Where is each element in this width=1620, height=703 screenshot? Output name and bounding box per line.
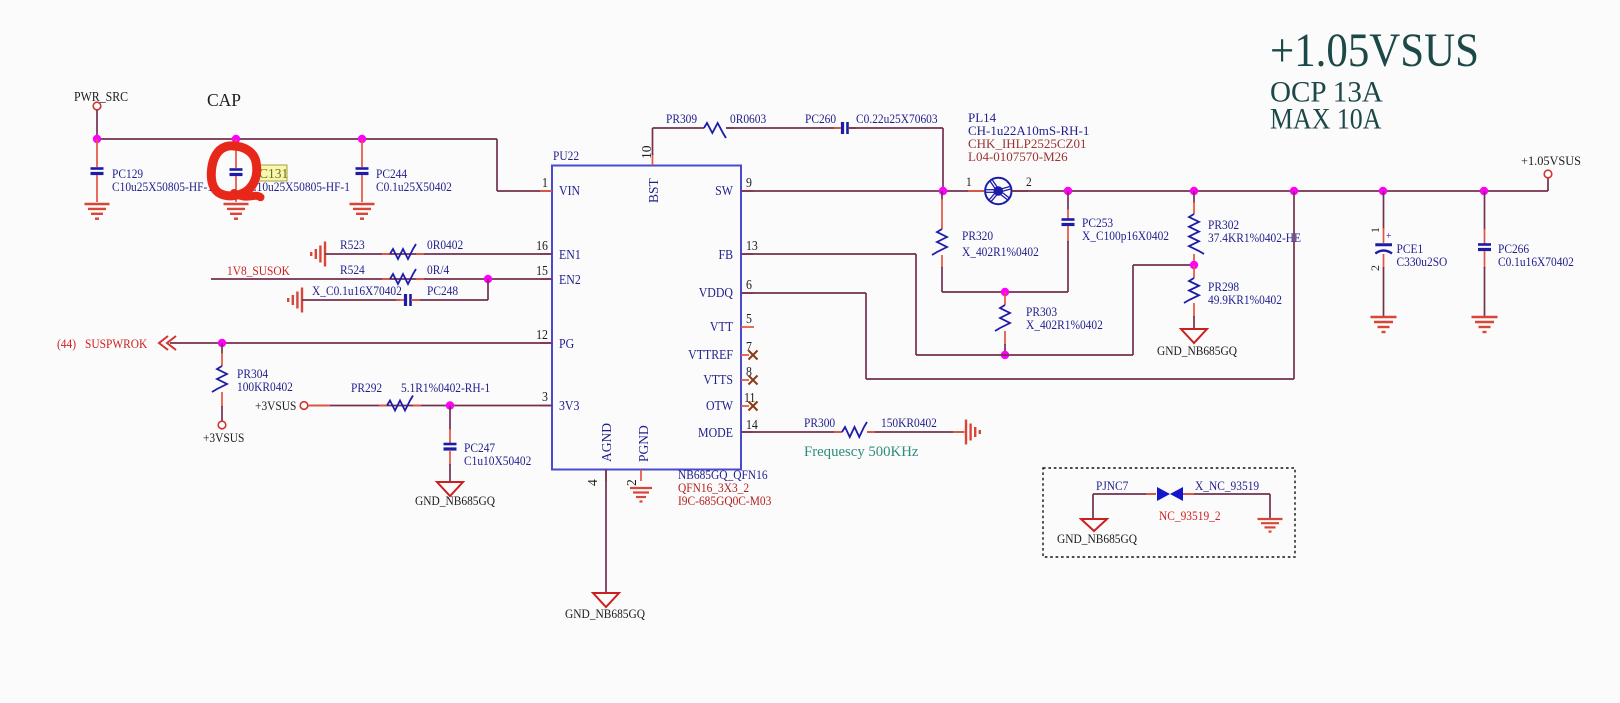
svg-text:2: 2: [1368, 265, 1382, 271]
ground: [85, 204, 110, 219]
wire 3V3: [308, 405, 552, 407]
svg-text:5: 5: [746, 311, 752, 326]
node junction: [1190, 261, 1198, 269]
svg-text:R523: R523: [340, 237, 365, 252]
svg-text:CAP: CAP: [207, 90, 241, 110]
svg-text:+3VSUS: +3VSUS: [255, 398, 297, 413]
svg-text:C330u2SO: C330u2SO: [1396, 254, 1447, 269]
node junction: [939, 187, 947, 195]
svg-text:GND_NB685GQ: GND_NB685GQ: [415, 493, 495, 508]
svg-text:GND_NB685GQ: GND_NB685GQ: [1157, 343, 1237, 358]
svg-text:PC248: PC248: [427, 283, 458, 298]
svg-text:0R0402: 0R0402: [427, 237, 463, 252]
svg-text:EN1: EN1: [559, 247, 581, 262]
wire EN1: [325, 253, 552, 255]
svg-text:C0.1u25X50402: C0.1u25X50402: [376, 179, 452, 194]
svg-text:3V3: 3V3: [559, 398, 579, 413]
node junction: [1379, 187, 1387, 195]
svg-text:PR292: PR292: [351, 380, 382, 395]
inductor PL14 labels: [968, 110, 1089, 164]
node junction: [1480, 187, 1488, 195]
node junction: [1001, 288, 1009, 296]
svg-text:GND_NB685GQ: GND_NB685GQ: [1057, 531, 1137, 546]
wire: [302, 279, 488, 300]
no-connect VTTREF: [741, 351, 758, 360]
wire BST: [653, 128, 705, 155]
ground: [1371, 317, 1397, 332]
svg-text:R524: R524: [340, 262, 365, 277]
svg-text:X_402R1%0402: X_402R1%0402: [962, 244, 1039, 259]
capacitor PC131: [230, 139, 350, 202]
pin names bottom and top: [599, 177, 661, 462]
ground GND_NB685GQ: [1057, 519, 1137, 546]
capacitor PC247: [444, 406, 532, 482]
wire: [1092, 494, 1094, 518]
no-connect VTTS: [741, 376, 758, 385]
svg-text:GND_NB685GQ: GND_NB685GQ: [565, 606, 645, 621]
svg-text:37.4KR1%0402-HE: 37.4KR1%0402-HE: [1208, 230, 1301, 245]
ground GND_NB685GQ: [415, 482, 495, 508]
pin numbers: [536, 145, 758, 486]
svg-text:MAX 10A: MAX 10A: [1270, 103, 1382, 136]
svg-text:1: 1: [1368, 227, 1382, 233]
note OCP 13A: [1270, 76, 1384, 108]
svg-text:Frequescy 500KHz: Frequescy 500KHz: [804, 444, 919, 460]
wire input bus: [96, 139, 552, 191]
net title +1.05VSUS: [1270, 23, 1479, 77]
terminal PWR_SRC: [74, 89, 128, 109]
svg-text:+1.05VSUS: +1.05VSUS: [1521, 154, 1581, 168]
svg-text:SW: SW: [715, 183, 733, 198]
ground GND_NB685GQ: [565, 593, 645, 621]
pin names left: [559, 183, 581, 413]
node junction: [1001, 351, 1009, 359]
wire output: [1012, 190, 1548, 192]
diode NC bowtie X_NC_93519: [1157, 478, 1259, 501]
svg-text:5.1R1%0402-RH-1: 5.1R1%0402-RH-1: [401, 380, 490, 395]
resistor PR292: [351, 380, 490, 410]
svg-text:X_C0.1u16X70402: X_C0.1u16X70402: [312, 283, 402, 298]
svg-text:PU22: PU22: [553, 148, 579, 163]
svg-text:C1u10X50402: C1u10X50402: [464, 453, 531, 468]
node junction: [232, 135, 240, 143]
label CAP: [207, 90, 241, 110]
power ground symbol right: [966, 420, 980, 445]
svg-text:2: 2: [624, 479, 639, 486]
note MAX 10A: [1270, 103, 1382, 136]
wire: [726, 127, 840, 129]
capacitor PCE1 polarized: [1368, 191, 1447, 317]
ground: [1472, 317, 1498, 332]
wire: [848, 128, 943, 191]
terminal +3VSUS input: [255, 398, 308, 413]
label NC_93519_2: [1159, 508, 1221, 523]
svg-text:X_NC_93519: X_NC_93519: [1195, 478, 1259, 493]
svg-text:OTW: OTW: [706, 398, 733, 413]
svg-text:0R/4: 0R/4: [427, 262, 449, 277]
svg-text:PR320: PR320: [962, 228, 993, 243]
resistor R524: [340, 262, 449, 284]
svg-text:13: 13: [746, 238, 758, 253]
no-connect OTW: [741, 402, 758, 411]
svg-text:PJNC7: PJNC7: [1096, 478, 1128, 493]
svg-text:C10u25X50805-HF-1: C10u25X50805-HF-1: [249, 179, 350, 194]
terminal +3VSUS: [203, 421, 245, 445]
capacitor PC253: [1062, 191, 1170, 292]
net label PJNC7: [1096, 478, 1128, 493]
wire SW: [741, 190, 984, 192]
svg-text:C10u25X50805-HF-1: C10u25X50805-HF-1: [112, 179, 213, 194]
wire: [942, 291, 1068, 293]
svg-text:PR300: PR300: [804, 415, 835, 430]
capacitor PC244: [356, 139, 452, 202]
node junction: [1290, 187, 1298, 195]
pin 5 VTT stub: [741, 326, 754, 328]
note frequency: [804, 444, 919, 460]
off-page connector chevrons: [159, 336, 176, 350]
node junction: [1190, 187, 1198, 195]
power ground symbol left: [288, 288, 302, 313]
svg-text:1V8_SUSOK: 1V8_SUSOK: [227, 263, 290, 278]
svg-text:2: 2: [1026, 174, 1032, 189]
svg-text:+1.05VSUS: +1.05VSUS: [1270, 23, 1479, 77]
svg-text:VDDQ: VDDQ: [699, 285, 733, 300]
svg-text:SUSPWROK: SUSPWROK: [85, 336, 147, 351]
svg-text:100KR0402: 100KR0402: [237, 379, 293, 394]
ground: [1258, 519, 1283, 532]
node junction: [484, 275, 492, 283]
svg-text:NC_93519_2: NC_93519_2: [1159, 508, 1221, 523]
net label (44) SUSPWROK: [57, 336, 147, 351]
node junction: [93, 135, 101, 143]
node junction: [1064, 187, 1072, 195]
resistor PR304: [212, 343, 293, 421]
svg-text:1: 1: [966, 174, 972, 189]
dashed box no-connect area: [1043, 468, 1295, 557]
node junction: [446, 401, 454, 409]
resistor PR300: [804, 415, 937, 437]
wire: [1093, 493, 1156, 495]
wire VDDQ: [741, 191, 1294, 379]
terminal +1.05VSUS: [1521, 154, 1581, 191]
wire: [1183, 494, 1270, 518]
svg-text:49.9KR1%0402: 49.9KR1%0402: [1208, 292, 1282, 307]
svg-text:C0.22u25X70603: C0.22u25X70603: [856, 111, 938, 126]
svg-text:3: 3: [542, 389, 548, 404]
svg-text:C0.1u16X70402: C0.1u16X70402: [1498, 254, 1574, 269]
svg-text:16: 16: [536, 238, 548, 253]
wire FB: [741, 254, 1194, 355]
svg-text:VIN: VIN: [559, 183, 580, 198]
ground GND_NB685GQ: [1157, 329, 1237, 358]
wire AGND: [605, 470, 607, 593]
svg-text:VTT: VTT: [710, 319, 733, 334]
resistor PR298: [1184, 265, 1282, 329]
svg-text:4: 4: [585, 479, 600, 486]
wire EN2: [211, 278, 552, 280]
svg-text:VTTREF: VTTREF: [688, 347, 733, 362]
svg-text:PWR_SRC: PWR_SRC: [74, 89, 128, 104]
inductor PL14: [966, 174, 1032, 204]
resistor PR320: [932, 191, 1039, 292]
svg-text:PGND: PGND: [636, 425, 651, 462]
node junction: [358, 135, 366, 143]
svg-text:EN2: EN2: [559, 272, 581, 287]
svg-text:I9C-685GQ0C-M03: I9C-685GQ0C-M03: [678, 493, 771, 508]
ground: [350, 204, 375, 219]
pin names right: [688, 183, 733, 440]
svg-text:L04-0107570-M26: L04-0107570-M26: [968, 149, 1068, 164]
svg-text:X_402R1%0402: X_402R1%0402: [1026, 317, 1103, 332]
op-amp U1 PU22 NB685GQ regulator box: [552, 148, 741, 469]
wire MODE: [741, 431, 965, 433]
net label 1V8_SUSOK: [227, 263, 290, 278]
svg-text:6: 6: [746, 277, 752, 292]
svg-text:AGND: AGND: [599, 423, 614, 462]
pin stubs: [540, 153, 753, 481]
svg-text:0R0603: 0R0603: [730, 111, 766, 126]
svg-text:MODE: MODE: [698, 425, 733, 440]
svg-text:14: 14: [746, 417, 758, 432]
svg-text:C131: C131: [259, 166, 288, 181]
wire: [96, 110, 98, 139]
svg-text:1: 1: [542, 175, 548, 190]
svg-text:12: 12: [536, 327, 548, 342]
svg-text:(44): (44): [57, 336, 76, 351]
svg-text:150KR0402: 150KR0402: [881, 415, 937, 430]
svg-text:VTTS: VTTS: [703, 372, 733, 387]
IC part labels: [678, 467, 771, 508]
resistor PR302: [1189, 191, 1301, 265]
capacitor PC260: [805, 111, 938, 134]
capacitor PC266: [1478, 191, 1574, 317]
ground PGND: [630, 488, 652, 502]
svg-text:9: 9: [746, 175, 752, 190]
capacitor PC129: [91, 139, 213, 202]
resistor PR303: [995, 292, 1103, 355]
svg-text:X_C100p16X0402: X_C100p16X0402: [1082, 228, 1169, 243]
annotation red circle around PC131: [211, 146, 260, 197]
node junction: [218, 339, 226, 347]
svg-text:15: 15: [536, 263, 548, 278]
resistor R523: [340, 237, 463, 259]
svg-text:PG: PG: [559, 336, 574, 351]
wire PG: [170, 342, 552, 344]
svg-text:PR309: PR309: [666, 111, 697, 126]
highlight label C131: [257, 165, 289, 181]
svg-text:+3VSUS: +3VSUS: [203, 430, 245, 445]
ground: [224, 204, 249, 219]
power ground symbol left: [311, 242, 325, 267]
resistor PR309: [666, 111, 766, 138]
svg-text:+: +: [1386, 231, 1392, 243]
capacitor PC248: [312, 283, 458, 306]
svg-text:FB: FB: [718, 247, 733, 262]
svg-text:PC260: PC260: [805, 111, 836, 126]
svg-text:BST: BST: [646, 177, 661, 203]
